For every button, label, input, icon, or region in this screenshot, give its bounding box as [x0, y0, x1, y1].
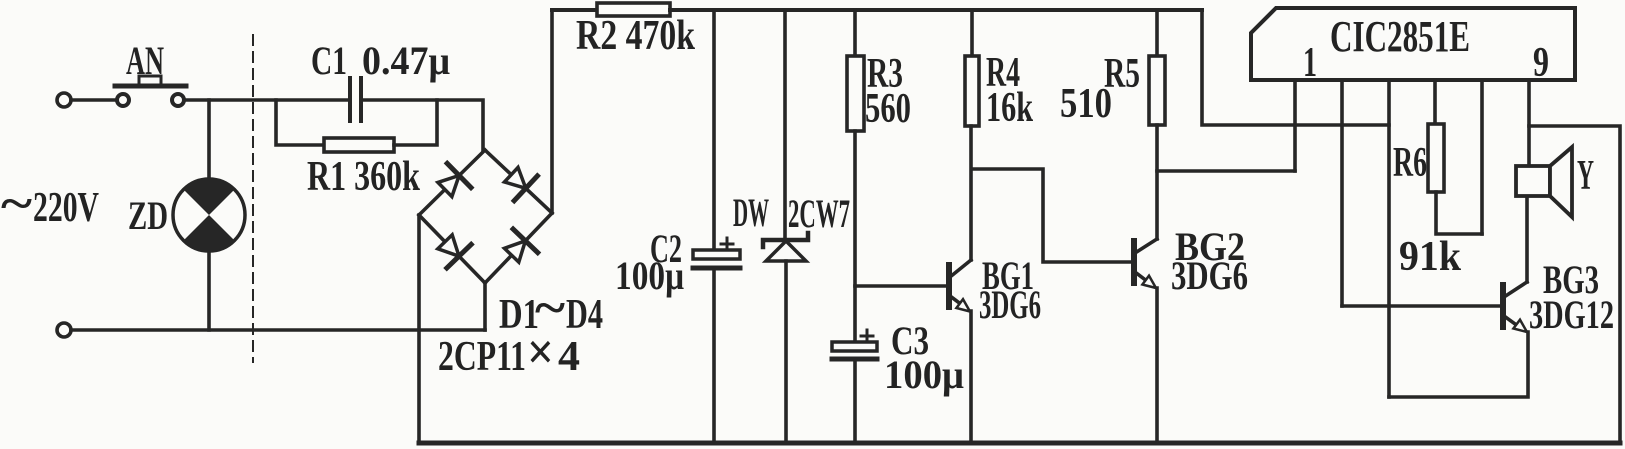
- label C3: [884, 318, 964, 397]
- terminal top-left AC input: [57, 93, 71, 107]
- wire pin 3: [1387, 80, 1391, 397]
- wire R5 lower lead to BG2 collector: [1155, 125, 1159, 239]
- lamp ZD: [173, 179, 245, 251]
- wire rail drop to pin3 feed: [1202, 10, 1389, 125]
- wire switch to C1 node: [184, 98, 350, 102]
- wire DW upper lead: [783, 10, 787, 240]
- label BG1 3DG6: [979, 253, 1041, 327]
- capacitor C1: [350, 78, 361, 121]
- wire BG1 emitter to bottom rail: [969, 311, 973, 442]
- transistor BG3: [1503, 282, 1527, 332]
- diode D3 (bottom-left, points to bottom vertex): [438, 235, 471, 268]
- svg-text:R1 360k: R1 360k: [307, 154, 420, 200]
- label R3 560: [865, 51, 911, 132]
- wire top rail right of R2: [670, 8, 1202, 12]
- label BG3 3DG12: [1529, 257, 1614, 337]
- svg-text:AN: AN: [126, 38, 164, 83]
- svg-text:100μ: 100μ: [615, 253, 684, 298]
- svg-text:560: 560: [865, 86, 911, 132]
- svg-text:3DG6: 3DG6: [1171, 253, 1248, 298]
- wire R6 bottom jog to pin 5: [1436, 192, 1482, 234]
- wire bridge left vertex to bottom rail: [417, 215, 421, 442]
- svg-text:2CW7: 2CW7: [788, 191, 850, 236]
- wire R1 right branch: [394, 100, 437, 145]
- wire R5 upper lead: [1155, 10, 1159, 56]
- svg-text:3DG6: 3DG6: [979, 282, 1041, 327]
- bridge edge bottom-left wire: [419, 215, 485, 283]
- wire pin6 node to right edge and bottom rail: [1529, 126, 1620, 443]
- label C1 0.47u: [311, 38, 450, 83]
- svg-text:2CP11: 2CP11: [438, 334, 526, 380]
- svg-text:9: 9: [1533, 40, 1549, 86]
- resistor R1: [324, 138, 394, 152]
- svg-text:D4: D4: [566, 292, 603, 338]
- svg-text:91k: 91k: [1399, 234, 1462, 280]
- svg-text:R6: R6: [1393, 140, 1427, 186]
- svg-text:16k: 16k: [986, 85, 1033, 131]
- svg-text:510: 510: [1060, 81, 1112, 127]
- svg-text:100μ: 100μ: [884, 352, 964, 397]
- bridge edge top-right wire: [485, 150, 552, 213]
- wire bottom rail: [419, 441, 1620, 446]
- wire bridge right vertex to top rail: [550, 10, 554, 213]
- wire top rail left of R2: [552, 8, 597, 12]
- diode D4 (bottom-right, points to right vertex): [504, 229, 537, 262]
- label R4 16k: [986, 50, 1033, 131]
- capacitor C2 (electrolytic): [693, 238, 740, 268]
- op-amp U1 CIC2851E body: [1251, 8, 1575, 80]
- bridge edge top-left wire: [419, 150, 485, 215]
- dashed separator line: [252, 35, 254, 362]
- wire C2 lower lead: [712, 268, 716, 442]
- capacitor C3 (electrolytic): [832, 330, 877, 359]
- wire R1 left branch: [276, 100, 324, 145]
- bridge edge bottom-right wire: [485, 213, 552, 283]
- wire R4 lower lead to BG1 collector: [969, 126, 973, 260]
- wire C2 upper lead: [712, 10, 716, 250]
- transistor BG2: [1134, 239, 1157, 288]
- label BG2 3DG6: [1171, 224, 1248, 298]
- wire bridge bottom vertex to AC wire: [483, 283, 487, 330]
- wire bottom AC to bridge: [71, 328, 485, 332]
- resistor R2: [597, 3, 670, 16]
- wire BG3 collector to speaker: [1525, 196, 1529, 282]
- wire R3 lower lead to C3: [853, 131, 857, 342]
- wire C1 to bridge top: [362, 100, 483, 150]
- terminal bottom-left AC input: [57, 323, 71, 337]
- svg-text:C1: C1: [311, 38, 347, 83]
- wire BG2 emitter to bottom rail: [1155, 288, 1159, 442]
- svg-text:Y: Y: [1577, 153, 1594, 199]
- svg-text:R2 470k: R2 470k: [576, 13, 696, 59]
- svg-text:ZD: ZD: [128, 193, 168, 238]
- wire pin 6: [1527, 80, 1531, 166]
- resistor R5: [1149, 56, 1165, 125]
- wire BG3 emitter loop to pin 3: [1389, 332, 1528, 397]
- wire pin 5: [1480, 80, 1484, 234]
- svg-text:4: 4: [558, 334, 580, 380]
- wire R3 upper lead: [853, 10, 857, 56]
- svg-text:220V: 220V: [33, 185, 99, 231]
- diode D1 (top-left, points to top vertex): [438, 163, 471, 196]
- diode D2 (top-right, points to right vertex): [504, 167, 537, 200]
- label DW 2CW7: [733, 190, 850, 236]
- label C2: [615, 226, 684, 298]
- svg-text:~: ~: [1, 177, 32, 230]
- label D1~D4: [499, 279, 603, 338]
- wire terminal to switch: [71, 98, 116, 102]
- switch AN: [115, 76, 186, 106]
- svg-text:3DG12: 3DG12: [1529, 292, 1614, 337]
- resistor R4: [965, 56, 979, 126]
- wire ZD branch upper: [207, 100, 211, 180]
- svg-text:CIC2851E: CIC2851E: [1330, 12, 1470, 61]
- zener diode DW: [763, 233, 808, 261]
- resistor R3: [847, 56, 864, 131]
- wire pin 1: [1293, 80, 1297, 171]
- resistor R6: [1428, 124, 1444, 192]
- label ~220V: [1, 177, 99, 231]
- label R5 510: [1060, 51, 1140, 127]
- transistor BG1: [949, 260, 971, 312]
- speaker Y: [1516, 147, 1572, 217]
- wire BG1 base feed: [855, 284, 946, 288]
- wire ZD branch lower: [207, 251, 211, 330]
- svg-text:DW: DW: [733, 190, 769, 235]
- wire DW lower lead: [784, 261, 788, 442]
- wire BG2 collector node to chip pin 1: [1157, 169, 1295, 173]
- svg-text:0.47μ: 0.47μ: [362, 38, 450, 83]
- wire jog R4 node to BG2 base: [972, 169, 1131, 262]
- svg-text:×: ×: [527, 324, 554, 381]
- label 2CP11x4: [438, 324, 580, 381]
- wire pin 2: [1340, 80, 1344, 306]
- wire R4 upper lead: [970, 10, 974, 56]
- wire C3 lower lead: [853, 359, 857, 442]
- wire pin 2 to BG3 base: [1342, 304, 1500, 308]
- svg-text:1: 1: [1303, 40, 1317, 86]
- wire pin 4: [1433, 80, 1437, 124]
